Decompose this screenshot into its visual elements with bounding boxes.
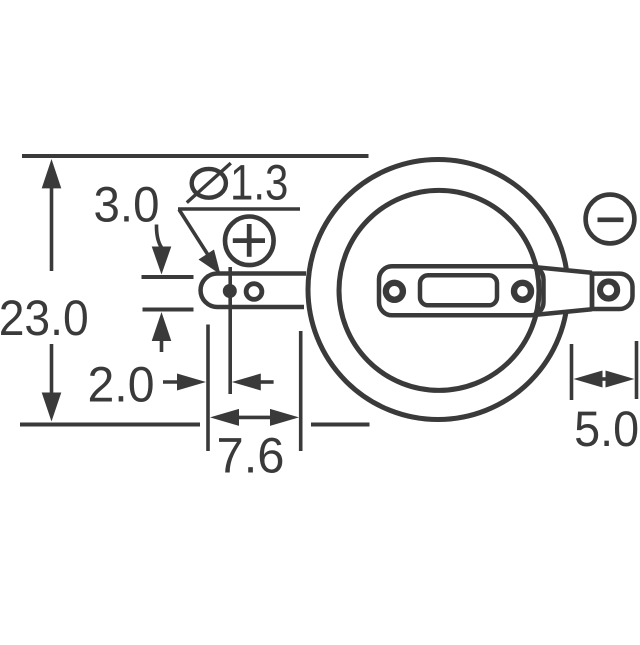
extension line 3.0 upper	[142, 275, 194, 279]
right tab neck (white fill over circles)	[546, 269, 592, 313]
central tab right hole	[514, 283, 531, 300]
plus sign horizontal bar	[233, 238, 265, 243]
dimension arrowhead 5.0 right	[606, 371, 635, 388]
dimension arrowhead 3.0 down	[152, 247, 172, 275]
svg-text:5.0: 5.0	[574, 401, 639, 457]
extension line 5.0 left	[570, 344, 574, 400]
central tab plate (rounded rect)	[379, 266, 544, 315]
dimension line 3.0 lower stem	[160, 340, 164, 352]
dimension arrowhead 3.0 up	[152, 312, 172, 341]
extension line 5.0 right	[635, 341, 639, 399]
dimension text Ø (diameter symbol oval)	[192, 169, 226, 198]
dimension line 2.0 right stem	[258, 380, 274, 384]
dimension arrowhead 7.6 left	[210, 409, 239, 426]
dimension arrowhead 2.0 left-pointing	[232, 374, 261, 391]
extension line through hole (2.0/7.6 dim)	[228, 267, 232, 394]
extension line left (2.0/7.6 dims)	[206, 325, 210, 452]
left tab (positive pin strip)	[201, 274, 306, 308]
dimension line 23.0 upper segment	[50, 186, 54, 271]
plus sign vertical bar	[247, 224, 252, 257]
leader underline Ø1.3	[178, 207, 300, 211]
extension line right (7.6 dim)	[299, 331, 303, 451]
positive terminal symbol circle	[225, 217, 274, 266]
dimension text Ø (diameter symbol slash)	[187, 163, 231, 203]
svg-text:1.3: 1.3	[230, 155, 288, 211]
dimension arrowhead 23.0 down	[42, 393, 62, 422]
svg-text:3.0: 3.0	[94, 177, 160, 233]
dimension arrowhead 5.0 left	[574, 371, 603, 388]
svg-text:7.6: 7.6	[217, 428, 285, 484]
left tab hole 2 (ring)	[246, 284, 262, 300]
battery outer circle	[308, 160, 568, 420]
leader elbow 3.0	[156, 225, 161, 248]
dimension arrowhead 2.0 right-pointing	[177, 374, 206, 391]
right tab end (rounded)	[592, 274, 633, 309]
left tab hole (filled, Ø1.3)	[223, 284, 237, 298]
dimension line 23.0 lower segment	[50, 344, 54, 394]
extension line 3.0 lower	[143, 308, 194, 312]
extension line top (23.0 dim)	[22, 154, 369, 158]
extension line bottom left (23.0 dim)	[20, 423, 200, 427]
svg-text:2.0: 2.0	[88, 357, 155, 413]
negative terminal symbol circle	[586, 195, 635, 244]
dimension line 2.0 left stem	[163, 380, 180, 384]
central tab window (inner rounded rect)	[420, 275, 497, 305]
leader arrowhead Ø1.3	[199, 250, 221, 275]
right tab fold line	[590, 272, 595, 311]
svg-text:23.0: 23.0	[0, 290, 89, 346]
right tab neck top edge	[536, 267, 592, 273]
battery inner circle (cell rim)	[339, 190, 539, 390]
dimension arrowhead 23.0 up	[42, 159, 62, 188]
right tab neck bottom edge	[536, 309, 592, 315]
minus sign bar	[598, 218, 624, 223]
dimension arrowhead 7.6 right	[270, 409, 299, 426]
dimension line 5.0	[596, 377, 612, 381]
extension line bottom right (23.0 dim)	[311, 423, 370, 427]
dimension line 7.6	[230, 416, 280, 420]
right tab hole (ring)	[600, 281, 617, 298]
central tab left hole	[386, 283, 403, 300]
leader diagonal Ø1.3	[179, 210, 210, 259]
